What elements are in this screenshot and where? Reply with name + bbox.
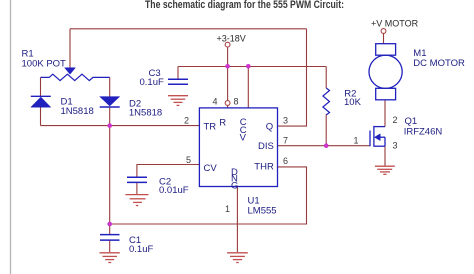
wire pin5 to C2 — [137, 165, 200, 177]
op-amp U1 555 box — [199, 108, 277, 187]
wire C2 to ground — [136, 183, 138, 194]
svg-text:+3-18V: +3-18V — [217, 34, 246, 44]
diode D1 — [31, 96, 51, 107]
wire D1 anode to rail — [40, 107, 42, 126]
transistor Q1 MOSFET — [370, 126, 385, 147]
svg-text:TR: TR — [204, 121, 217, 132]
svg-text:1N5818: 1N5818 — [61, 106, 94, 117]
ground C1 — [100, 253, 120, 263]
ground pin1 — [227, 253, 248, 263]
wire pin1 to ground — [236, 187, 238, 253]
resistor R1 pot body — [41, 74, 110, 80]
wire lower rail to THR — [110, 167, 307, 224]
svg-text:LM555: LM555 — [248, 206, 277, 217]
resistor R1 wiper arrow — [65, 68, 76, 75]
svg-text:100K POT: 100K POT — [22, 58, 67, 69]
svg-text:+V MOTOR: +V MOTOR — [371, 19, 419, 29]
svg-text:1N5818: 1N5818 — [129, 107, 162, 118]
node junction dot pin4/vcc rail — [225, 64, 230, 69]
wire supply terminal to rail — [227, 47, 229, 66]
wire pin3 riser — [278, 29, 307, 126]
svg-text:1: 1 — [354, 135, 359, 145]
wire VCC rail — [178, 66, 326, 68]
ground Q1 source — [375, 166, 395, 174]
wire C1 top stub — [109, 224, 111, 234]
svg-text:V: V — [240, 133, 247, 144]
svg-text:2: 2 — [184, 116, 189, 126]
node junction dot C1/rail — [107, 222, 112, 227]
node junction dot pin8/vcc rail — [246, 64, 251, 69]
motor M1 — [369, 44, 402, 100]
ground C2 — [125, 195, 148, 206]
ground C3 — [168, 96, 188, 106]
capacitor C2 — [127, 177, 147, 182]
wire R2 bottom — [325, 115, 327, 146]
svg-text:DC MOTOR: DC MOTOR — [413, 58, 465, 69]
svg-text:The schematic diagram for the: The schematic diagram for the 555 PWM Ci… — [145, 0, 344, 11]
wire C1 riser — [109, 126, 111, 224]
svg-text:0.1uF: 0.1uF — [140, 77, 164, 88]
terminal +3-18V — [225, 42, 230, 47]
node junction dot R2/gate — [324, 143, 329, 148]
svg-text:8: 8 — [234, 97, 239, 107]
wire diode bottom rail to pin2 — [41, 125, 200, 127]
wire source to ground — [384, 146, 386, 166]
svg-text:10K: 10K — [344, 97, 362, 108]
wire pot left lead down — [40, 77, 42, 96]
diode D2 — [100, 97, 120, 107]
wire DIS to gate — [278, 145, 370, 147]
wire R2 top to VCC rail — [325, 67, 327, 89]
capacitor C3 — [168, 79, 188, 84]
svg-text:DIS: DIS — [258, 141, 274, 152]
svg-text:Q: Q — [266, 121, 273, 132]
wire D2 cathode to rail — [109, 107, 111, 126]
wire C3 riser — [177, 67, 179, 80]
svg-text:0.01uF: 0.01uF — [159, 185, 189, 196]
wire motor to drain — [384, 100, 386, 127]
capacitor C1 — [100, 235, 120, 241]
wire pot right lead down — [109, 77, 111, 96]
node junction dot D2/rail — [107, 123, 112, 128]
svg-text:5: 5 — [186, 155, 191, 165]
svg-text:IRFZ46N: IRFZ46N — [404, 127, 443, 138]
terminal pin4 circle — [225, 101, 230, 106]
svg-text:THR: THR — [254, 162, 274, 173]
wire wiper riser — [69, 29, 71, 68]
wire pin4 circle to box — [227, 105, 229, 108]
svg-text:3: 3 — [393, 140, 398, 150]
wire motor terminal stub — [383, 34, 385, 44]
wire pin8 — [247, 66, 249, 108]
svg-text:Q1: Q1 — [405, 116, 418, 127]
resistor R2 — [323, 88, 330, 115]
wire C1 bottom stub — [109, 241, 111, 253]
svg-text:7: 7 — [283, 136, 288, 146]
svg-text:1: 1 — [225, 204, 230, 214]
svg-text:3: 3 — [283, 116, 288, 126]
svg-text:6: 6 — [283, 156, 288, 166]
wire top rail from pot wiper to pin3 riser — [70, 28, 307, 30]
svg-text:R: R — [219, 117, 226, 128]
page border line — [10, 0, 12, 274]
svg-text:4: 4 — [213, 97, 218, 107]
terminal +V MOTOR — [381, 29, 386, 34]
svg-text:CV: CV — [204, 163, 218, 174]
svg-text:2: 2 — [393, 115, 398, 125]
svg-text:G: G — [231, 180, 238, 191]
wire rail to pin4 circle — [227, 66, 229, 100]
svg-text:0.1uF: 0.1uF — [129, 244, 153, 255]
